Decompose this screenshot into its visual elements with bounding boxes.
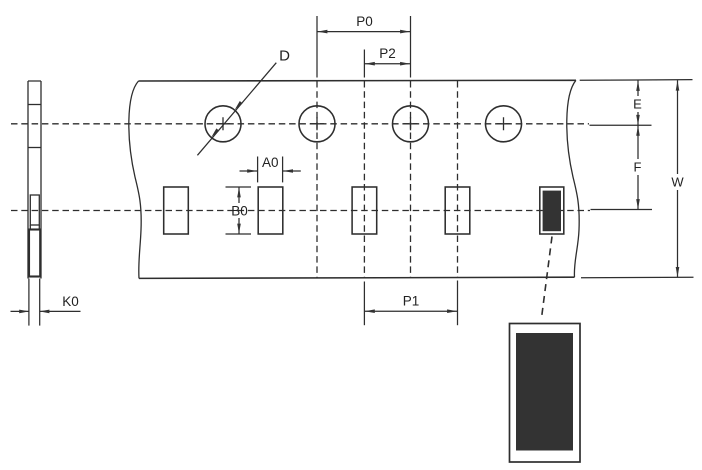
side view pocket lower rect (bold)	[29, 230, 40, 277]
sprocket hole 2 center cross	[310, 117, 324, 130]
dimension W line upper segment	[677, 80, 679, 174]
sprocket hole circle 4	[486, 106, 522, 142]
dimension B0 top tick line	[226, 186, 252, 188]
detail view outer rectangle	[510, 324, 581, 463]
dimension F line upper segment	[637, 125, 639, 159]
dimension B0 up arrow	[237, 187, 241, 197]
svg-text:D: D	[279, 48, 290, 65]
side view pocket notch right	[38, 225, 40, 230]
dimension P2 right arrow	[400, 62, 410, 66]
dimension W down arrow	[676, 267, 680, 277]
dimension B0 line lower segment	[238, 218, 240, 234]
dimension P0 left arrow	[317, 30, 327, 34]
dimension A0 extension line left	[257, 157, 259, 183]
svg-text:P0: P0	[356, 14, 373, 29]
svg-text:E: E	[633, 97, 642, 112]
extension line tape bottom edge (right)	[581, 276, 694, 279]
vertical centerline pocket 4	[457, 81, 459, 278]
dimension P1 line	[364, 310, 457, 312]
dimension W line lower segment	[677, 190, 679, 277]
side view strip division line 1	[28, 104, 41, 106]
dimension B0 bottom tick line	[226, 233, 252, 235]
dimension P0 extension line right	[410, 16, 412, 78]
extension line pocket centerline (right)	[591, 209, 653, 211]
sprocket hole 3 center cross	[404, 117, 418, 130]
tape top edge	[139, 79, 577, 82]
dimension E down arrow	[636, 115, 640, 125]
component pocket 4	[445, 187, 470, 234]
sprocket hole 4 center cross	[497, 117, 511, 130]
dimension P1 left arrow	[365, 309, 375, 313]
dimension E line lower segment	[637, 112, 639, 125]
leader line for D	[197, 63, 276, 156]
dimension K0 left arrow	[19, 310, 29, 314]
sprocket hole circle 3	[393, 106, 429, 142]
component pocket 5 outline (with part)	[540, 187, 564, 234]
leader D arrow at circle bottom-left	[211, 128, 219, 137]
sprocket hole centerline (horizontal dashed)	[11, 123, 589, 125]
dimension E up arrow	[636, 81, 640, 91]
dimension P1 right arrow	[447, 309, 457, 313]
dimension K0 line left segment	[11, 310, 29, 312]
dimension P2 left arrow	[365, 62, 375, 66]
pocket centerline (horizontal dashed)	[11, 210, 590, 212]
side view tape strip outline	[28, 81, 41, 279]
svg-text:A0: A0	[262, 155, 279, 170]
svg-text:W: W	[671, 175, 684, 190]
dimension K0 line right segment	[40, 310, 81, 312]
svg-text:K0: K0	[62, 294, 79, 309]
dimension F up arrow	[636, 126, 640, 136]
dimension A0 extension line right	[282, 157, 284, 183]
svg-text:P2: P2	[379, 46, 396, 61]
vertical centerline circle 3	[410, 81, 412, 278]
dimension P0 line	[317, 31, 411, 33]
dimension A0 left arrow (outside pointing right)	[247, 169, 257, 173]
tape bottom edge	[139, 277, 575, 278]
tape right break curve	[567, 80, 579, 277]
svg-text:F: F	[634, 160, 642, 175]
vertical centerline pocket 3	[363, 81, 365, 278]
dimension B0 line upper segment	[238, 187, 240, 203]
dimension B0 down arrow	[237, 224, 241, 234]
extension line tape top edge (right)	[580, 79, 693, 82]
detail view dark component rectangle	[516, 333, 573, 451]
component pocket 3	[352, 187, 377, 234]
dimension P1 extension line right	[457, 281, 459, 326]
side view pocket notch left	[29, 225, 31, 230]
sprocket hole 1 center cross	[216, 117, 230, 130]
dimension P1 extension line left	[363, 282, 365, 326]
extension line sprocket centerline (right)	[590, 124, 652, 126]
dimension W up arrow	[676, 81, 680, 91]
svg-text:B0: B0	[231, 204, 248, 219]
svg-text:P1: P1	[403, 294, 420, 309]
component pocket 5 dark part fill	[543, 191, 561, 232]
K0 extension line right	[39, 279, 41, 326]
tape left break curve	[129, 81, 141, 278]
component pocket 1	[164, 187, 189, 234]
dimension P2 line	[364, 63, 410, 65]
side view strip division line 2	[28, 147, 41, 149]
dimension P0 extension line left	[316, 16, 318, 78]
dimension A0 tail right	[283, 170, 301, 172]
dimension A0 right arrow (outside pointing left)	[283, 169, 293, 173]
sprocket hole circle 2	[299, 106, 335, 142]
dimension F line lower segment	[637, 175, 639, 210]
component pocket 2	[258, 187, 283, 234]
dimension K0 right arrow	[39, 310, 49, 314]
sprocket hole circle 1	[205, 106, 241, 142]
dimension P0 right arrow	[400, 30, 410, 34]
dimension A0 tail left	[240, 170, 258, 172]
dashed leader to detail view	[542, 237, 553, 319]
dimension E line upper segment	[637, 81, 639, 97]
dimension F down arrow	[636, 199, 640, 209]
K0 extension line left	[28, 279, 30, 326]
vertical centerline circle 2	[316, 81, 318, 278]
side view pocket upper rect	[30, 195, 39, 225]
dimension P2 extension line left	[363, 50, 365, 78]
leader D arrow at circle top-right	[235, 101, 243, 110]
